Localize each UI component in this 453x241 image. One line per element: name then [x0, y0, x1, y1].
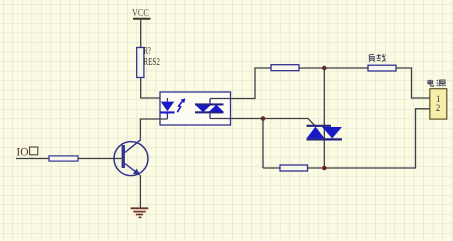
wire Q1 emitter to ground	[139, 175, 141, 208]
resistor R1 R? RES2	[137, 46, 160, 78]
connector J1	[430, 89, 447, 119]
resistor R2	[49, 156, 78, 161]
power VCC	[132, 8, 151, 19]
svg-text:R?: R?	[144, 46, 151, 57]
wire R3 to node A	[299, 67, 368, 69]
wire opto pin4 to top rail	[210, 68, 271, 99]
opto light arrow	[177, 98, 185, 112]
resistor R4 load	[368, 65, 396, 71]
resistor R5	[280, 165, 308, 171]
optocoupler U1 box	[160, 92, 231, 125]
node C junction	[322, 166, 327, 171]
transistor Q1	[114, 140, 148, 176]
svg-text:RES2: RES2	[143, 57, 160, 68]
wire VCC to R1	[140, 20, 142, 48]
负	[369, 54, 375, 62]
wire R4 to connector pin1	[396, 68, 430, 98]
resistor R3	[271, 65, 299, 71]
node B junction	[261, 116, 266, 121]
net label 电源 (power)	[428, 80, 446, 87]
wire R1 to opto LED anode	[141, 78, 168, 103]
svg-text:2: 2	[436, 103, 441, 113]
wire node A to triac	[323, 68, 325, 168]
电	[428, 80, 433, 87]
node A junction	[322, 66, 327, 71]
net label IO口	[16, 145, 37, 159]
triac Q2	[307, 126, 343, 140]
wire IO to R2	[16, 158, 49, 160]
net label 负载 (load)	[369, 54, 386, 62]
ground	[131, 208, 149, 217]
opto LED D1	[161, 98, 175, 119]
载	[377, 54, 386, 62]
opto photo-triac	[195, 99, 224, 119]
bottom rail wire	[263, 109, 430, 168]
svg-text:VCC: VCC	[132, 8, 149, 19]
源	[437, 80, 446, 86]
svg-text:IO: IO	[16, 145, 29, 159]
wire opto pin6 to triac gate	[210, 119, 315, 126]
wire opto cathode to Q1 collector	[140, 119, 167, 141]
wire node B down	[262, 119, 264, 169]
wire R2 to Q1 base	[78, 158, 122, 160]
